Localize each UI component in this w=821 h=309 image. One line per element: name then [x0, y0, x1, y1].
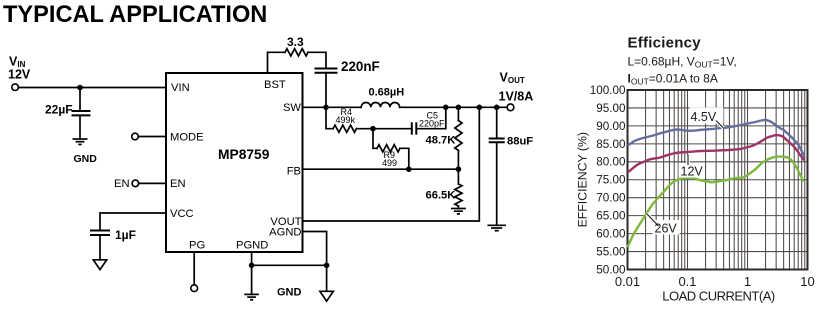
svg-text:4.5V: 4.5V — [691, 110, 717, 124]
node A junction — [370, 126, 376, 132]
IC U1 MP8759 body — [166, 73, 303, 252]
resistor R4 499k — [333, 125, 357, 132]
node input junction — [77, 85, 83, 91]
wire EN — [139, 182, 166, 184]
svg-text:3.3: 3.3 — [287, 35, 304, 49]
resistor R_BST 3.3 — [285, 49, 308, 56]
svg-text:1µF: 1µF — [115, 228, 136, 242]
wire FB line — [303, 168, 459, 170]
ground below PGND — [244, 294, 259, 299]
svg-text:EN: EN — [114, 178, 130, 190]
svg-text:VCC: VCC — [170, 208, 194, 220]
svg-text:12V: 12V — [8, 68, 31, 82]
ground below R6 — [451, 209, 466, 214]
svg-text:VIN: VIN — [171, 82, 190, 94]
svg-text:IOUT=0.01A to 8A: IOUT=0.01A to 8A — [628, 72, 718, 87]
svg-text:85.00: 85.00 — [596, 138, 626, 151]
wire C_BST down to SW — [325, 73, 327, 108]
curve 26V — [628, 156, 804, 247]
node PGND junction — [249, 263, 255, 269]
chart y-axis labels — [590, 84, 626, 277]
svg-text:1V/8A: 1V/8A — [499, 89, 534, 103]
node AGND junction — [324, 263, 330, 269]
svg-text:80.00: 80.00 — [596, 156, 626, 169]
svg-text:60.00: 60.00 — [596, 228, 626, 241]
wire C5 to riser — [416, 107, 446, 128]
label 4.5V — [690, 108, 724, 129]
wire node A down to R9 — [373, 129, 377, 149]
capacitor C3 88uF — [489, 107, 505, 225]
svg-text:22µF: 22µF — [45, 103, 73, 117]
resistor R6 66.5K — [455, 169, 462, 208]
svg-text:MP8759: MP8759 — [218, 147, 270, 162]
label 26V — [647, 214, 680, 236]
svg-text:0.01: 0.01 — [615, 274, 640, 289]
ground triangle AGND — [320, 291, 333, 301]
svg-text:EFFICIENCY (%): EFFICIENCY (%) — [576, 132, 590, 227]
svg-text:EN: EN — [170, 178, 186, 190]
chart frame — [628, 90, 808, 270]
resistor R9 499 — [377, 145, 400, 152]
wire BST riser — [268, 52, 286, 73]
wire PGND down — [251, 252, 253, 294]
chart gridlines — [628, 90, 808, 270]
svg-text:MODE: MODE — [170, 132, 204, 144]
svg-text:48.7K: 48.7K — [426, 135, 456, 147]
wire SW out — [303, 106, 362, 108]
label VIN 12V — [8, 55, 31, 82]
chart x-axis labels — [615, 274, 815, 289]
node C3 junction — [494, 105, 500, 111]
svg-text:PGND: PGND — [236, 240, 268, 252]
svg-text:1: 1 — [744, 274, 751, 289]
wire SW down to R4 — [326, 107, 333, 128]
wire R9 to FB line — [400, 148, 409, 169]
terminal VOUT — [507, 104, 514, 111]
svg-text:75.00: 75.00 — [596, 174, 626, 187]
wire AGND pin — [303, 232, 327, 292]
wire R_BST to C_BST — [308, 52, 326, 68]
resistor R5 48.7K — [455, 107, 462, 169]
wire VCC to C2 — [100, 213, 166, 230]
svg-text:220nF: 220nF — [341, 59, 380, 74]
svg-text:499: 499 — [382, 158, 397, 168]
node VOUT riser junction — [477, 105, 483, 111]
curve 12V — [628, 135, 805, 172]
svg-text:LOAD CURRENT(A): LOAD CURRENT(A) — [662, 289, 775, 304]
svg-text:VOUT: VOUT — [500, 71, 525, 86]
svg-text:90.00: 90.00 — [596, 120, 626, 133]
node C5 top junction — [443, 105, 449, 111]
wire PG down — [193, 252, 195, 285]
svg-text:AGND: AGND — [269, 227, 301, 239]
svg-text:55.00: 55.00 — [596, 245, 626, 258]
capacitor C_BST 220nF — [315, 69, 338, 73]
svg-text:12V: 12V — [681, 164, 704, 178]
svg-text:70.00: 70.00 — [596, 192, 626, 205]
svg-text:BST: BST — [264, 79, 286, 91]
svg-text:TYPICAL APPLICATION: TYPICAL APPLICATION — [3, 2, 267, 28]
capacitor C5 220pF — [412, 122, 417, 134]
node SW junction — [323, 105, 329, 111]
svg-text:0.1: 0.1 — [678, 274, 696, 289]
capacitor C2 1uF — [90, 231, 110, 260]
svg-text:26V: 26V — [655, 222, 678, 236]
svg-text:100.00: 100.00 — [590, 84, 626, 97]
capacitor C1 22uF — [72, 111, 91, 139]
svg-text:95.00: 95.00 — [596, 102, 626, 115]
svg-text:220pF: 220pF — [419, 119, 445, 129]
svg-text:10: 10 — [800, 274, 814, 289]
wire L1 to VOUT terminal — [400, 106, 508, 108]
ground below C1 — [73, 139, 88, 144]
svg-text:88uF: 88uF — [507, 136, 533, 148]
label VOUT 1V/8A — [499, 71, 534, 104]
inductor L1 0.68uH — [361, 103, 399, 108]
node R5 top junction — [456, 105, 462, 111]
wire VOUT pin riser — [303, 107, 480, 221]
terminal MODE — [132, 133, 139, 140]
ground below C3 — [487, 225, 506, 230]
wire PGND to AGND net — [252, 264, 327, 266]
curve 4.5V — [628, 120, 805, 158]
wire R4 to node A — [357, 128, 412, 130]
svg-text:GND: GND — [74, 153, 98, 165]
label 12V — [679, 155, 705, 179]
wire junction down to C1 — [79, 88, 81, 111]
terminal EN — [132, 180, 139, 187]
svg-text:L=0.68µH, VOUT=1V,: L=0.68µH, VOUT=1V, — [628, 55, 737, 70]
svg-text:SW: SW — [283, 102, 301, 114]
svg-text:65.00: 65.00 — [596, 210, 626, 223]
wire MODE — [138, 136, 166, 138]
terminal PG — [191, 285, 198, 292]
node FB divider junction — [456, 166, 462, 172]
svg-text:GND: GND — [277, 287, 302, 299]
svg-text:Efficiency: Efficiency — [628, 34, 702, 51]
svg-text:0.68µH: 0.68µH — [369, 86, 405, 98]
svg-text:PG: PG — [189, 240, 205, 252]
node R9-FB junction — [406, 166, 412, 172]
ground triangle below C2 — [93, 260, 106, 270]
svg-text:FB: FB — [287, 166, 301, 178]
svg-text:66.5K: 66.5K — [426, 190, 456, 202]
terminal VIN input — [12, 84, 19, 91]
svg-text:499k: 499k — [336, 115, 356, 125]
wire VIN to IC — [18, 87, 166, 89]
